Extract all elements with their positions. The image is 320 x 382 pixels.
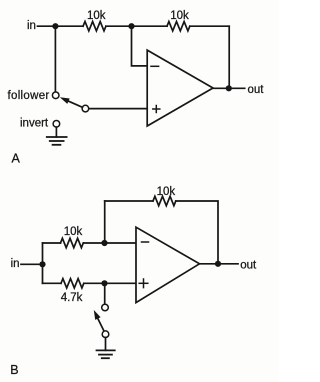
wire R3 to inverting input of U2 (83, 242, 136, 244)
switch SW1 arm (68, 101, 83, 108)
wire in to R1 (38, 25, 84, 27)
resistor R3 10k (61, 238, 84, 247)
svg-text:A: A (12, 152, 21, 166)
wire in (B) (21, 263, 43, 265)
wire switch SW2 to ground (105, 338, 107, 351)
wire node A1 to inverting input of U1 (132, 26, 148, 66)
wire op-amp U2 output to out (200, 263, 239, 265)
wire feedback top left segment (105, 200, 153, 202)
junction dot inverting node (B) (101, 240, 107, 246)
wire invert contact to ground (55, 127, 57, 137)
switch SW2 arm (98, 318, 104, 331)
op-amp U1 (147, 50, 213, 126)
op-amp U2 inverting pin minus sign (142, 241, 149, 243)
op-amp U2 non-inverting pin plus sign (139, 279, 148, 288)
wire R2 to feedback corner (190, 25, 229, 27)
svg-text:10k: 10k (170, 10, 189, 22)
ground (A) (47, 137, 67, 145)
wire feedback loop left vertical (B) (104, 201, 106, 243)
resistor R2 10k (feedback) (167, 22, 190, 31)
wire input branch vertical (B) (42, 243, 44, 283)
wire feedback top right segment and right vertical (176, 201, 218, 264)
wire in branch down to follower contact (54, 26, 56, 92)
wire non-inverting node down to switch SW2 (104, 283, 106, 304)
junction dot at output (B) (215, 261, 221, 267)
switch SW2 arrowhead (94, 310, 101, 320)
junction dot non-inverting node (B) (101, 280, 107, 286)
svg-text:invert: invert (20, 118, 49, 130)
svg-text:10k: 10k (64, 226, 83, 238)
ground (B) (97, 350, 115, 358)
wire lower branch to R4 (43, 282, 62, 284)
switch SW2 lower contact (102, 331, 109, 338)
resistor R4 4.7k (61, 279, 84, 288)
switch SW2 upper contact (102, 304, 109, 311)
junction dot at in (B) (39, 261, 45, 267)
wire switch pole to non-inverting input of U1 (89, 108, 147, 110)
wire feedback vertical (A) (228, 26, 230, 88)
op-amp U2 (136, 227, 200, 302)
wire R4 to non-inverting input of U2 (84, 282, 136, 284)
svg-text:10k: 10k (87, 10, 106, 22)
wire upper branch to R3 (43, 242, 61, 244)
junction dot node A1 (128, 23, 134, 29)
switch SW1 arrowhead (60, 97, 70, 104)
junction dot at in branch (A) (52, 23, 58, 29)
resistor R1 10k (83, 22, 106, 31)
resistor R5 10k (feedback B) (153, 196, 176, 205)
op-amp U1 inverting pin minus sign (151, 65, 159, 67)
svg-text:in: in (27, 20, 36, 32)
op-amp U1 non-inverting pin plus sign (153, 106, 160, 113)
svg-text:follower: follower (8, 90, 50, 102)
junction dot at output (A) (226, 85, 232, 91)
svg-text:out: out (248, 84, 265, 96)
svg-text:10k: 10k (157, 186, 176, 198)
wire R1 to node A1 (106, 25, 132, 27)
svg-text:B: B (10, 363, 18, 377)
wire op-amp U1 output to out (213, 87, 245, 89)
switch SW1 invert contact (53, 121, 60, 128)
wire node A1 to R2 (132, 25, 168, 27)
svg-text:out: out (240, 259, 257, 271)
switch SW1 pole contact (82, 105, 89, 112)
svg-text:in: in (11, 258, 20, 270)
switch SW1 follower contact (52, 92, 59, 99)
svg-text:4.7k: 4.7k (61, 292, 83, 304)
